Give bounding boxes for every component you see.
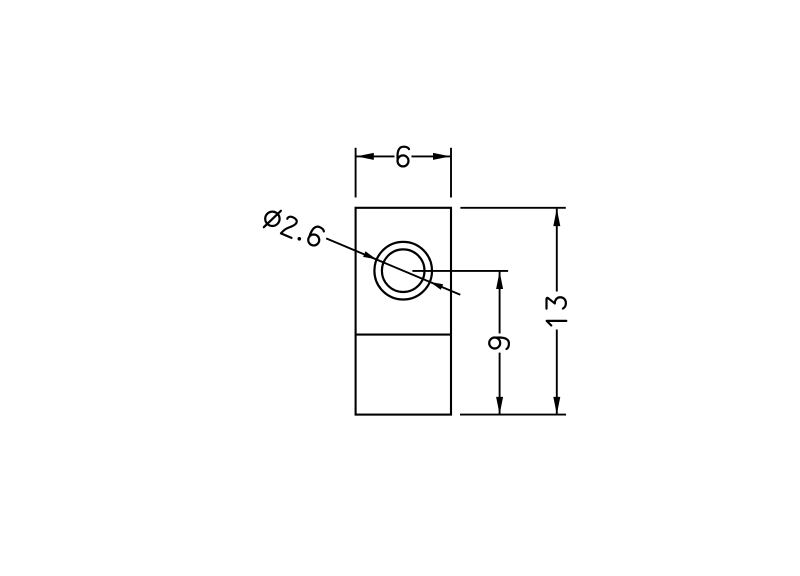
dim 9 text xyxy=(489,337,509,349)
dim 6 line right segment xyxy=(412,155,451,157)
dim 13 line lower segment xyxy=(556,330,558,415)
part step line xyxy=(356,334,451,336)
leader text diameter symbol xyxy=(264,211,281,227)
dim 13 extension line top xyxy=(460,207,565,209)
dim 9 arrow top xyxy=(496,272,503,290)
dim 6 line left segment xyxy=(356,155,394,157)
leader text digit 6 xyxy=(307,225,325,248)
leader arrow at left of hole xyxy=(363,251,376,259)
hole outer circle xyxy=(374,242,432,300)
dim 13 text xyxy=(547,297,566,308)
dim 9 line lower segment xyxy=(499,353,501,415)
dim 13 line upper segment xyxy=(556,209,558,292)
dim 6 arrow right xyxy=(433,153,451,160)
leader line for hole diameter xyxy=(326,238,460,294)
leader arrow at right of hole xyxy=(430,282,443,290)
dim 13 extension line bottom xyxy=(460,414,566,416)
leader text decimal point xyxy=(298,237,302,241)
dim 9 line upper segment xyxy=(499,272,501,334)
dim 13 arrow top xyxy=(553,209,560,227)
dim 6 text xyxy=(397,147,409,167)
dim 13 arrow bottom xyxy=(553,397,560,415)
part outline xyxy=(356,208,451,415)
dim 9 arrow bottom xyxy=(496,397,503,415)
hole inner circle xyxy=(382,249,425,292)
dim 6 extension line left xyxy=(355,148,357,198)
leader text value 2.6 xyxy=(281,215,299,237)
dim 9 reference line from hole center xyxy=(412,270,508,272)
dim 6 extension line right xyxy=(450,148,452,198)
dim 6 arrow left xyxy=(356,153,374,160)
